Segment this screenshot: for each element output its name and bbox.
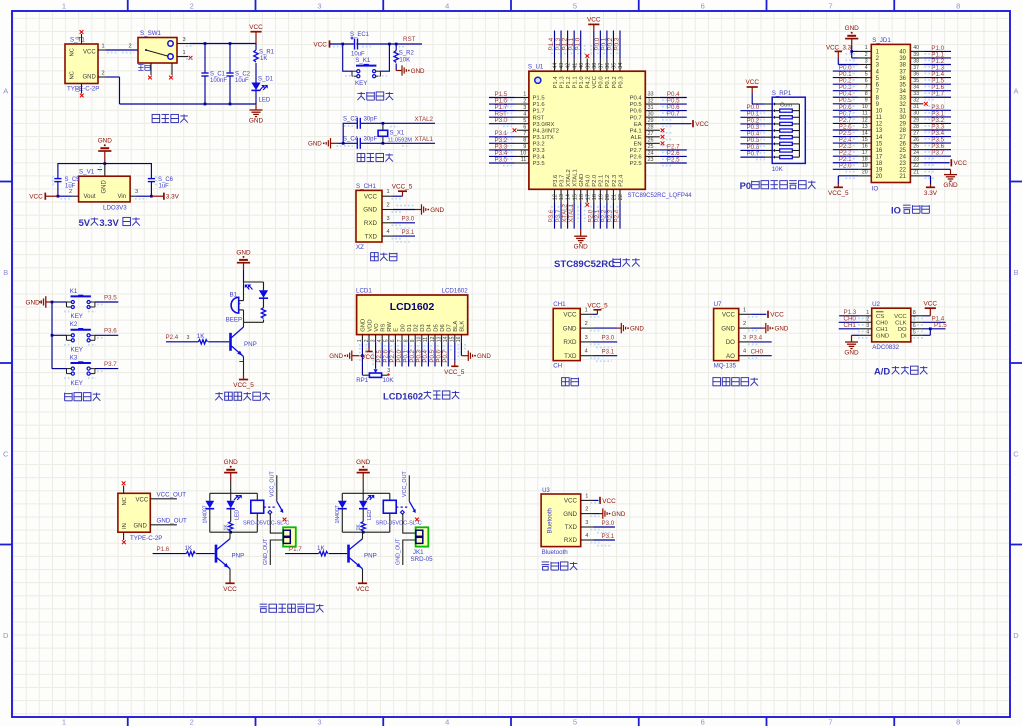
ERC marks <box>359 344 361 362</box>
svg-text:LCD1602: LCD1602 <box>442 287 469 294</box>
LCD1 pin numbers <box>357 336 462 342</box>
pin bottom no-connect <box>123 532 125 540</box>
relay switch <box>264 506 275 508</box>
resistor 1K (alarm LED) <box>263 298 265 307</box>
wire VCC_OUT <box>150 498 177 500</box>
wire JD1 pin 21 to 3.3V <box>923 175 930 177</box>
svg-text:11.0592M: 11.0592M <box>388 138 413 144</box>
wire P3.3 to JD1.28 <box>923 129 951 131</box>
U1 right pin names <box>630 96 643 168</box>
svg-text:20: 20 <box>876 174 883 180</box>
svg-text:P3.2: P3.2 <box>533 141 545 147</box>
LED (relay indicator) <box>362 493 364 501</box>
svg-text:32: 32 <box>913 98 919 104</box>
wire P0.1 (LCD pin 8) <box>408 342 410 366</box>
wire P0.3 to RP1.5 <box>740 130 765 132</box>
wire RST (U1 pin 4) <box>515 116 529 118</box>
svg-text:S_X1: S_X1 <box>390 131 405 137</box>
wire P2.3 (U1 pin 21) <box>612 189 614 202</box>
svg-text:34: 34 <box>899 89 906 95</box>
wire P1.4 <box>923 321 946 323</box>
svg-text:P3.7: P3.7 <box>559 175 565 187</box>
connector S_CH1 XZ <box>356 190 382 242</box>
key K1 <box>71 295 91 297</box>
svg-text:GND: GND <box>98 138 113 145</box>
wire P3.5 (U1 pin 11) <box>515 162 529 164</box>
wire key right <box>380 44 389 71</box>
svg-text:39: 39 <box>899 56 906 62</box>
svg-text:P1.4: P1.4 <box>553 76 559 89</box>
wire P3.2 (U1 pin 8) <box>515 142 529 144</box>
wire GND to network <box>243 270 245 282</box>
svg-text:IN: IN <box>122 523 128 529</box>
wire LCD BLK to GND <box>460 342 462 355</box>
svg-text:1: 1 <box>743 307 746 313</box>
svg-text:D6: D6 <box>440 324 446 332</box>
wire Vin <box>137 195 152 197</box>
capacitor S_C2 10uF <box>229 44 231 74</box>
wire P0.1 to RP1.3 <box>740 116 765 118</box>
RP1 internal resistor 1 <box>773 109 776 112</box>
diode 1N4007 (flyback) <box>209 493 211 501</box>
svg-text:Vout: Vout <box>84 194 96 200</box>
svg-text:19: 19 <box>876 168 883 174</box>
svg-text:P0.3: P0.3 <box>618 76 624 89</box>
power port GND (left) <box>352 355 363 357</box>
svg-text:XZ: XZ <box>356 244 364 251</box>
wire P3.0 <box>593 341 617 343</box>
wire LCD GND / pot left <box>361 342 363 375</box>
svg-text:3: 3 <box>187 335 190 341</box>
svg-text:7: 7 <box>913 317 916 323</box>
svg-text:LED: LED <box>235 510 241 520</box>
svg-text:VCC: VCC <box>695 121 709 128</box>
svg-text:VCC: VCC <box>924 300 938 307</box>
svg-text:VCC_3.3: VCC_3.3 <box>826 44 852 51</box>
wire emitter to VCC <box>362 569 364 581</box>
capacitor S_C6 1uF <box>148 178 155 180</box>
svg-text:3: 3 <box>523 105 526 111</box>
svg-text:+: + <box>238 302 241 308</box>
svg-text:22: 22 <box>899 168 906 174</box>
power port 3.3V <box>151 195 164 197</box>
svg-text:3.3V: 3.3V <box>99 218 119 228</box>
svg-text:GND: GND <box>876 333 889 339</box>
wire XTAL2 net <box>343 123 435 143</box>
wire RST net <box>330 43 423 45</box>
wire GND_OUT <box>150 524 177 526</box>
ERC marks <box>756 112 765 114</box>
resistor S_R2 10K <box>395 44 397 51</box>
JD1 pin stubs left <box>858 51 871 175</box>
capacitor S_C4 30pF <box>357 138 360 149</box>
svg-text:19: 19 <box>862 163 868 169</box>
svg-text:1K: 1K <box>317 545 325 552</box>
wire GND <box>752 327 763 329</box>
svg-text:7: 7 <box>828 717 832 726</box>
svg-text:3.3V: 3.3V <box>166 194 180 201</box>
resistor 1K (base P1.6) <box>153 553 187 555</box>
svg-text:D3: D3 <box>420 324 426 332</box>
svg-text:22: 22 <box>913 163 919 169</box>
svg-text:GND: GND <box>574 244 589 251</box>
wire P3.6 to JD1.25 <box>923 149 951 151</box>
junction <box>204 103 207 106</box>
svg-text:GND_OUT: GND_OUT <box>395 538 401 565</box>
wire P3.1 (U1 pin 7) <box>515 136 529 138</box>
svg-text:34: 34 <box>913 85 919 91</box>
power port VCC_5 <box>593 313 597 315</box>
svg-text:EA: EA <box>634 122 642 128</box>
svg-text:CH1: CH1 <box>553 301 566 308</box>
svg-text:16: 16 <box>579 194 585 200</box>
svg-text:CH0: CH0 <box>751 349 764 356</box>
svg-text:1K: 1K <box>260 56 267 62</box>
junction <box>395 43 398 46</box>
svg-text:D0: D0 <box>400 324 406 332</box>
wire P0.4 (U1 pin 33) <box>645 97 660 99</box>
pin top no-connect <box>123 486 125 494</box>
svg-text:NC: NC <box>70 48 76 56</box>
svg-text:S_C6: S_C6 <box>158 177 174 183</box>
svg-text:VCC: VCC <box>954 160 968 167</box>
svg-text:AO: AO <box>726 353 735 360</box>
svg-text:VCC: VCC <box>364 193 378 200</box>
svg-text:P2.5: P2.5 <box>667 156 680 163</box>
power port VCC_5 (LCD BLA) <box>454 342 456 360</box>
svg-text:36: 36 <box>605 63 611 69</box>
power port GND <box>255 104 257 110</box>
svg-text:S_C3: S_C3 <box>343 117 359 123</box>
svg-text:13: 13 <box>876 128 883 134</box>
svg-text:8: 8 <box>913 310 916 316</box>
svg-text:1: 1 <box>101 44 104 50</box>
svg-text:S_V1: S_V1 <box>79 169 95 176</box>
svg-text:P0.7: P0.7 <box>747 151 760 158</box>
pin JD1.32 no-connect <box>924 102 928 106</box>
ERC marks <box>503 99 513 101</box>
wire P0.2 to JD1.6 <box>833 83 859 85</box>
wire P0.0 (U1 pin 37) <box>599 59 601 72</box>
wire P3.0 to JD1.31 <box>923 109 951 111</box>
svg-text:12: 12 <box>876 122 883 128</box>
svg-text:P0.3: P0.3 <box>614 37 621 50</box>
pin T1 top no-connect <box>81 34 83 44</box>
svg-text:27: 27 <box>913 130 919 136</box>
svg-text:BEEP: BEEP <box>226 317 243 324</box>
wire P1.0 (U1 pin 40) <box>580 59 582 72</box>
svg-text:KEY: KEY <box>71 347 83 354</box>
svg-text:33: 33 <box>648 92 654 98</box>
svg-text:GND: GND <box>102 180 108 194</box>
svg-text:21: 21 <box>612 194 618 200</box>
wire P2.4 (U1 pin 22) <box>619 189 621 202</box>
svg-text:GND: GND <box>308 141 322 148</box>
wire P0.6 (U1 pin 31) <box>645 110 660 112</box>
wire relay bottom rail <box>210 531 257 533</box>
svg-text:LCD1602: LCD1602 <box>383 391 423 401</box>
svg-text:8: 8 <box>523 138 526 144</box>
svg-text:4: 4 <box>523 111 526 117</box>
svg-text:3: 3 <box>387 368 390 374</box>
title 继电器控制电路 <box>260 604 324 612</box>
svg-text:D5: D5 <box>433 324 439 332</box>
svg-text:P0.2: P0.2 <box>612 76 618 88</box>
svg-text:PNP: PNP <box>364 553 377 560</box>
wire P3.4 <box>752 341 772 343</box>
svg-text:P3.5: P3.5 <box>533 161 546 167</box>
svg-text:8: 8 <box>865 91 868 97</box>
RP1 internal resistor 8 <box>773 156 776 159</box>
svg-text:GND: GND <box>224 459 239 466</box>
wire P2.0 (U1 pin 18) <box>593 189 595 202</box>
svg-text:EN: EN <box>634 141 642 147</box>
svg-text:14: 14 <box>876 135 883 141</box>
svg-text:TYPE-C-2P: TYPE-C-2P <box>130 535 162 542</box>
power port VCC <box>752 313 767 315</box>
svg-text:25: 25 <box>899 148 906 154</box>
wire P1.1 to JD1.39 <box>923 57 951 59</box>
wire P2.6 to JD1.13 <box>833 129 859 131</box>
power port VCC <box>45 195 58 197</box>
svg-text:1K: 1K <box>197 333 205 340</box>
ERC marks <box>590 316 600 318</box>
svg-text:2: 2 <box>190 717 194 726</box>
ERC marks <box>107 52 117 54</box>
svg-text:18: 18 <box>592 194 598 200</box>
svg-text:P1.5: P1.5 <box>934 322 947 329</box>
svg-text:GND: GND <box>721 325 735 332</box>
svg-text:11: 11 <box>862 111 867 117</box>
svg-text:VCC: VCC <box>894 314 907 320</box>
svg-text:4: 4 <box>445 717 449 726</box>
svg-text:P0.7: P0.7 <box>442 349 449 362</box>
svg-text:10K: 10K <box>399 57 410 63</box>
module LCD1 LCD1602 <box>357 295 468 335</box>
regulator S_V1 LDO3V3 <box>104 164 106 177</box>
wire GND <box>594 513 600 515</box>
svg-text:P3.0/RX: P3.0/RX <box>533 122 555 128</box>
svg-text:11: 11 <box>876 115 883 121</box>
svg-text:28: 28 <box>899 128 906 134</box>
svg-text:4: 4 <box>866 330 869 336</box>
svg-text:S_C1: S_C1 <box>210 71 226 77</box>
svg-text:3: 3 <box>585 520 588 526</box>
svg-text:3: 3 <box>386 216 389 222</box>
wire LCD VO to pot wiper <box>375 342 377 368</box>
svg-text:STC89C52RC_LQFP44: STC89C52RC_LQFP44 <box>628 193 693 199</box>
svg-text:PNP: PNP <box>232 553 245 560</box>
wire P2.7 (U1 pin 25) <box>645 149 660 151</box>
transistor PNP (P1.6) <box>215 545 218 563</box>
pin U1.26 no-connect <box>645 142 660 144</box>
svg-text:ALE: ALE <box>631 135 642 141</box>
svg-text:2: 2 <box>585 321 588 327</box>
power port VCC <box>362 581 364 584</box>
svg-text:SRD-05VDC-SL-C: SRD-05VDC-SL-C <box>243 521 289 527</box>
RP1 internal resistor 4 <box>773 129 776 132</box>
svg-text:14: 14 <box>862 130 868 136</box>
svg-text:C: C <box>3 449 9 458</box>
RP1 common rail <box>798 104 800 157</box>
wire P1.3 (U1 pin 43) <box>560 59 562 72</box>
ERC marks <box>392 198 403 200</box>
wire P2.0 to JD1.19 <box>833 168 859 170</box>
svg-text:P1.1: P1.1 <box>572 76 578 88</box>
wire relay top rail <box>210 492 257 494</box>
svg-text:35: 35 <box>612 63 618 69</box>
svg-text:P2.3: P2.3 <box>612 174 618 187</box>
svg-text:VCC: VCC <box>745 79 759 86</box>
wire P0.2 (LCD pin 9) <box>414 342 416 366</box>
key K2 <box>71 329 91 331</box>
svg-text:3.3V: 3.3V <box>924 190 938 197</box>
svg-text:0: 0 <box>76 89 82 92</box>
svg-text:25: 25 <box>648 144 654 150</box>
svg-text:P1.0: P1.0 <box>579 76 585 89</box>
svg-text:RP1: RP1 <box>356 377 369 384</box>
power port VCC_5 <box>393 195 403 197</box>
svg-text:P1.0: P1.0 <box>574 37 581 50</box>
wire EA to VCC <box>645 123 660 125</box>
wire P0.0 to RP1.2 <box>740 110 765 112</box>
wire bus to key <box>52 334 67 336</box>
svg-text:S_CH1: S_CH1 <box>356 183 377 190</box>
power port GND <box>580 229 582 236</box>
ERC marks <box>344 125 353 127</box>
svg-text:VDD: VDD <box>367 319 373 331</box>
wire emitter to VCC <box>229 569 231 581</box>
svg-text:VCC_OUT: VCC_OUT <box>269 471 275 497</box>
svg-text:P2.6: P2.6 <box>630 155 643 161</box>
svg-text:CH: CH <box>553 362 562 369</box>
svg-text:1: 1 <box>62 717 66 726</box>
wire Vout <box>58 195 72 197</box>
svg-text:S_JD1: S_JD1 <box>872 37 891 44</box>
svg-text:TXD: TXD <box>365 233 378 240</box>
power port VCC <box>593 24 595 31</box>
svg-text:16: 16 <box>862 143 868 149</box>
svg-text:VCC: VCC <box>602 498 616 505</box>
svg-text:23: 23 <box>913 157 919 163</box>
wire CH1 <box>839 328 860 330</box>
svg-text:A: A <box>3 86 8 95</box>
power port GND (right) <box>468 351 472 361</box>
svg-text:17: 17 <box>876 154 883 160</box>
wire P0.1 to JD1.5 <box>833 77 859 79</box>
svg-text:GND: GND <box>356 459 371 466</box>
wire relay bottom rail <box>342 531 390 533</box>
wire CH0 <box>839 321 860 323</box>
wire GND pin4 <box>852 334 860 336</box>
svg-text:33: 33 <box>913 91 919 97</box>
pin1 indicator circle <box>535 77 541 83</box>
svg-text:P3.0: P3.0 <box>602 520 615 527</box>
svg-text:P2.7: P2.7 <box>630 148 642 154</box>
power port 3.3V <box>930 184 932 187</box>
wire GND <box>393 209 415 211</box>
wire emitter to VCC_5 <box>243 357 245 375</box>
wire XTAL2 (U1 pin 14) <box>567 189 569 202</box>
svg-text:S_SW1: S_SW1 <box>140 30 162 37</box>
wire P0.2 (U1 pin 35) <box>612 59 614 72</box>
power port VCC <box>950 159 952 166</box>
svg-text:GND: GND <box>845 25 860 32</box>
svg-text:18: 18 <box>876 161 883 167</box>
svg-text:37: 37 <box>598 63 604 69</box>
svg-text:GND: GND <box>477 353 491 360</box>
svg-text:XTAL1: XTAL1 <box>572 169 578 187</box>
connector TYPE-C-2P (relay power) <box>118 493 150 532</box>
svg-text:40: 40 <box>579 63 585 69</box>
connector JK (SRD-05 terminal) <box>283 527 296 546</box>
wire XTAL1 net <box>338 142 435 144</box>
svg-text:2: 2 <box>743 321 746 327</box>
svg-text:P3.6: P3.6 <box>553 174 559 187</box>
junction <box>229 103 232 106</box>
svg-text:P1.3: P1.3 <box>559 76 565 89</box>
svg-text:P2.4: P2.4 <box>618 174 624 187</box>
wire P0.4 to RP1.6 <box>740 136 765 138</box>
wire P3.1 net <box>393 235 415 237</box>
svg-text:31: 31 <box>899 109 906 115</box>
svg-text:CH1: CH1 <box>844 322 857 329</box>
wire P3.4 (U1 pin 10) <box>515 155 529 157</box>
svg-text:S_RP1: S_RP1 <box>772 90 792 97</box>
wire collector <box>362 532 364 539</box>
wire key left <box>343 44 353 71</box>
svg-text:P1.2: P1.2 <box>566 76 572 88</box>
U1 bottom pin names <box>553 169 625 187</box>
svg-text:Vin: Vin <box>118 194 127 200</box>
svg-text:4: 4 <box>445 1 449 10</box>
svg-text:GND: GND <box>943 182 958 189</box>
pins SW1 bottom no-connect <box>150 63 152 75</box>
svg-text:VCC: VCC <box>563 312 577 319</box>
svg-text:P3.1: P3.1 <box>402 229 415 236</box>
RP1 internal resistor 6 <box>773 142 776 145</box>
svg-text:K3: K3 <box>70 354 78 361</box>
svg-text:1K: 1K <box>185 545 193 552</box>
wire P3.5 to JD1.26 <box>923 142 951 144</box>
wire P0.3 (U1 pin 34) <box>619 59 621 72</box>
wire P0.7 to RP1.9 <box>740 156 765 158</box>
svg-text:RS: RS <box>381 324 387 332</box>
title 电源电路 <box>152 114 188 122</box>
svg-text:P1.7: P1.7 <box>931 91 944 98</box>
svg-text:GND: GND <box>249 118 264 125</box>
wire P1.7 (U1 pin 3) <box>515 110 529 112</box>
svg-text:GND: GND <box>361 319 367 332</box>
wire P2.5 to JD1.14 <box>833 136 859 138</box>
power port VCC <box>747 86 758 88</box>
svg-text:13: 13 <box>862 124 868 130</box>
wire P0.5 to JD1.9 <box>833 103 859 105</box>
svg-text:1: 1 <box>865 45 868 51</box>
svg-text:37: 37 <box>913 65 919 71</box>
wire P0.3 to JD1.7 <box>833 90 859 92</box>
JD1 outside pin numbers right <box>913 45 919 175</box>
svg-text:33: 33 <box>899 95 906 101</box>
svg-text:LED: LED <box>367 510 373 520</box>
junction <box>57 195 60 198</box>
wire P0.5 (LCD pin 12) <box>434 342 436 366</box>
power port VCC_5 <box>837 184 839 187</box>
svg-text:3: 3 <box>317 717 321 726</box>
svg-text:P0.4: P0.4 <box>630 96 643 102</box>
svg-text:D1: D1 <box>407 324 413 332</box>
U1 left pin numbers <box>520 92 526 164</box>
